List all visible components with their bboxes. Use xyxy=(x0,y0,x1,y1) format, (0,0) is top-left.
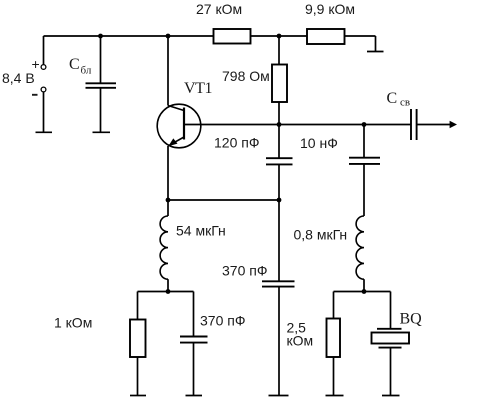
wire output lead xyxy=(417,124,452,126)
wire left tee horizontal xyxy=(138,291,194,293)
wire 798 Ом top lead xyxy=(278,36,280,65)
svg-text:8,4 В: 8,4 В xyxy=(2,70,35,86)
wire top rail xyxy=(44,35,376,37)
svg-text:кОм: кОм xyxy=(287,333,314,349)
ground (2,5 кОм) xyxy=(326,395,344,397)
capacitor 120 пФ xyxy=(266,158,293,164)
crystal BQ xyxy=(372,329,410,348)
wire 1 кОм top lead xyxy=(137,292,139,320)
wire 10 нФ top lead xyxy=(363,125,365,158)
capacitor 370 пФ (mid) xyxy=(262,281,295,286)
svg-text:27 кОм: 27 кОм xyxy=(196,1,242,17)
node junction top rail at collector xyxy=(166,34,171,39)
node junction mid rail at 10 нФ xyxy=(362,122,367,127)
wire 370 пФ left bottom lead xyxy=(193,343,195,396)
node junction right tee xyxy=(362,289,367,294)
wire 798 Ом bottom lead xyxy=(278,102,280,125)
inductor L1 54 мкГн xyxy=(160,216,168,279)
resistor R3 798 Ом xyxy=(272,65,287,103)
wire battery bottom lead xyxy=(43,92,45,132)
battery GB1 plus terminal xyxy=(41,65,46,70)
node junction left tee xyxy=(166,289,171,294)
wire 370 пФ mid top lead xyxy=(278,200,280,281)
wire 54 мкГн bottom lead xyxy=(167,279,169,291)
node junction 120 пФ branch at y200 xyxy=(277,198,282,203)
wire collector lead xyxy=(167,36,169,106)
battery GB1 minus terminal xyxy=(41,87,46,92)
svg-text:BQ: BQ xyxy=(400,311,423,328)
svg-text:9,9 кОм: 9,9 кОм xyxy=(305,1,355,17)
node junction mid rail at 120 пФ xyxy=(277,122,282,127)
svg-text:10 нФ: 10 нФ xyxy=(300,135,338,151)
wire 1 кОм bottom lead xyxy=(137,357,139,396)
wire Сбл bottom lead xyxy=(100,88,102,132)
wire emitter lead xyxy=(167,146,169,200)
svg-text:C: C xyxy=(387,90,398,107)
resistor R1 27 кОм xyxy=(214,29,251,44)
wire BQ top lead xyxy=(390,292,392,329)
svg-text:бл: бл xyxy=(81,65,92,77)
capacitor 10 нФ xyxy=(349,158,380,164)
label minus sign xyxy=(32,94,38,96)
ground (370 пФ left) xyxy=(186,395,203,397)
transistor VT1 xyxy=(157,104,201,148)
wire right tee horizontal xyxy=(334,291,391,293)
wire stub to top-right ground xyxy=(375,36,377,52)
wire 120 пФ top lead xyxy=(278,125,280,158)
wire 2,5 кОм bottom lead xyxy=(333,357,335,396)
wire BQ bottom lead xyxy=(390,348,392,396)
node junction emitter at y200 xyxy=(166,198,171,203)
arrow output xyxy=(450,121,457,128)
label 2,5 кОм xyxy=(287,320,314,349)
svg-text:798 Ом: 798 Ом xyxy=(222,68,270,84)
wire 54 мкГн top lead xyxy=(167,200,169,216)
capacitor Сбл xyxy=(86,83,117,88)
svg-text:C: C xyxy=(69,56,80,73)
svg-text:54 мкГн: 54 мкГн xyxy=(176,223,226,239)
svg-text:120 пФ: 120 пФ xyxy=(214,135,259,151)
capacitor 370 пФ (left) xyxy=(180,337,208,343)
ground (battery) xyxy=(36,131,53,133)
label Ссв xyxy=(387,90,411,109)
svg-text:св: св xyxy=(400,97,410,109)
ground (370 пФ mid) xyxy=(269,395,289,397)
ground (Сбл) xyxy=(93,131,111,133)
ground (top right) xyxy=(367,51,384,53)
wire 10 нФ bottom lead xyxy=(363,165,365,217)
svg-text:1 кОм: 1 кОм xyxy=(54,315,92,331)
inductor L2 0,8 мкГн xyxy=(356,216,364,279)
wire base / mid rail xyxy=(184,124,411,126)
label Сбл xyxy=(69,56,92,77)
wire 370 пФ mid bottom lead xyxy=(278,287,280,396)
wire 0,8 мкГн bottom lead xyxy=(363,279,365,291)
node junction top rail at 798 Ом xyxy=(277,34,282,39)
svg-text:370 пФ: 370 пФ xyxy=(200,313,245,329)
node junction top rail at Сбл xyxy=(98,34,103,39)
resistor R4 1 кОм xyxy=(130,320,146,358)
svg-text:0,8 мкГн: 0,8 мкГн xyxy=(294,227,348,243)
wire 2,5 кОм top lead xyxy=(333,292,335,319)
svg-text:370 пФ: 370 пФ xyxy=(222,263,267,279)
wire battery top lead xyxy=(43,36,45,65)
wire Сбл top lead xyxy=(100,36,102,83)
ground (BQ) xyxy=(382,395,400,397)
wire emitter to 120 пФ branch xyxy=(168,199,279,201)
wire 370 пФ left top lead xyxy=(193,292,195,337)
capacitor Ссв xyxy=(411,109,417,140)
resistor R5 2,5 кОм xyxy=(327,319,341,358)
resistor R2 9,9 кОм xyxy=(307,29,345,44)
ground (1 кОм) xyxy=(130,395,146,397)
svg-text:VT1: VT1 xyxy=(184,80,213,97)
wire 120 пФ bottom lead xyxy=(278,165,280,200)
